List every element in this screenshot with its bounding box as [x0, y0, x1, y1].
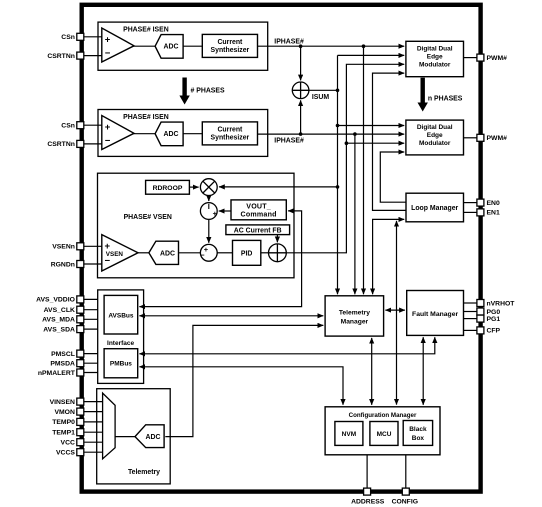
svg-text:Configuration Manager: Configuration Manager — [349, 412, 417, 419]
svg-text:Command: Command — [241, 211, 277, 219]
wire config bus up-arrow into loop input — [396, 221, 398, 405]
wire Loop Manager to modulator2 in4 (bus V6) — [380, 152, 406, 202]
wire PMBus to Fault Manager — [139, 337, 434, 354]
svg-text:RDROOP: RDROOP — [153, 185, 183, 192]
svg-text:AC Current FB: AC Current FB — [234, 228, 282, 235]
svg-text:n PHASES: n PHASES — [428, 95, 463, 102]
pin VINSEN — [77, 398, 84, 405]
pin PG1 — [477, 315, 484, 322]
wire ISUM bus to multiplier — [219, 186, 338, 188]
wire bus V4: IPHASE#1 down to Telemetry Manager — [363, 46, 365, 294]
svg-text:AVS_VDDIO: AVS_VDDIO — [36, 297, 75, 304]
svg-text:nPMALERT: nPMALERT — [38, 370, 76, 377]
pin AVS_MDA — [77, 316, 84, 323]
box NVM — [335, 422, 363, 446]
wire Loop Manager to modulator1 in4 (bus V5) — [373, 73, 407, 210]
thick arrow # PHASES — [182, 78, 186, 97]
box Telemetry Manager — [325, 296, 384, 336]
wire TEMP0 pin to telemetry mux — [84, 421, 103, 423]
svg-text:CSRTNn: CSRTNn — [47, 141, 75, 148]
pin PWM# 2 — [477, 134, 484, 141]
wire PID to adder — [261, 252, 269, 254]
wire summer1 to summer2 — [208, 219, 210, 242]
pin RGNDn — [77, 261, 84, 268]
thick arrow n PHASES — [421, 78, 425, 103]
pin CSRTNn 1 — [77, 52, 84, 59]
multiplier (droop) — [200, 179, 217, 196]
svg-text:TEMP1: TEMP1 — [52, 430, 75, 437]
svg-text:RGNDn: RGNDn — [51, 261, 75, 268]
svg-text:Modulator: Modulator — [419, 140, 451, 147]
box PMBus — [104, 349, 138, 378]
wire Telemetry Manager to Fault Manager (bidirectional) — [385, 309, 405, 311]
svg-text:CSn: CSn — [61, 34, 75, 41]
wire V1 to modulator2 in1 — [338, 125, 405, 127]
wire AVS_MDA pin to AVSBus — [84, 318, 104, 320]
pin nPMALERT — [77, 369, 84, 376]
wire AVSBus to VOUT_Command — [139, 211, 301, 307]
PART4 — [84, 299, 477, 488]
wire VSEN amp to ADC — [137, 252, 150, 254]
svg-text:CSn: CSn — [61, 123, 75, 130]
wire VINSEN pin to telemetry mux — [84, 401, 103, 403]
svg-text:PWM#: PWM# — [487, 135, 508, 142]
wire op-amp2 to ADC2 — [133, 133, 156, 135]
svg-text:TEMP0: TEMP0 — [52, 419, 75, 426]
svg-text:Box: Box — [412, 435, 425, 442]
pin PMSDA — [77, 360, 84, 367]
op-amp ISEN2 — [102, 116, 134, 150]
box Configuration Manager — [325, 407, 440, 455]
svg-text:AVS_SDA: AVS_SDA — [43, 326, 75, 333]
box MCU — [370, 422, 398, 446]
ADC VSEN — [149, 241, 179, 264]
wire CSn1 to op-amp — [84, 36, 103, 38]
wire AVS_CLK pin to AVSBus — [84, 309, 104, 311]
pin PMSCL — [77, 350, 84, 357]
svg-text:VCCS: VCCS — [56, 450, 75, 457]
wire Configuration Manager to CONFIG pin — [405, 455, 407, 488]
svg-text:VCC: VCC — [61, 440, 75, 447]
wire IPHASE#1 net to modulator1 in1 — [258, 45, 405, 47]
svg-text:Edge: Edge — [427, 54, 443, 61]
svg-text:AVS_CLK: AVS_CLK — [44, 307, 75, 314]
wire CSRTNn1 to op-amp — [84, 55, 103, 57]
pins: left side squares — [77, 33, 484, 495]
box VOUT_ Command — [231, 200, 286, 220]
wire ISUM output to bus V1 — [309, 89, 338, 91]
svg-text:Edge: Edge — [427, 132, 443, 139]
box AVSBus — [104, 295, 138, 334]
svg-text:Telemetry: Telemetry — [128, 469, 160, 476]
op-amp ISEN1 — [102, 28, 134, 62]
wire V1 to modulator1 in2 — [338, 54, 405, 56]
wire VOUT_Command to summer1 — [219, 210, 231, 212]
wire ADC2 to Current Synthesizer 2 — [183, 133, 202, 135]
PART3 — [258, 46, 477, 404]
svg-text:VSEN: VSEN — [106, 251, 124, 258]
svg-text:MCU: MCU — [377, 431, 392, 438]
op-amp VSEN — [102, 235, 138, 271]
wire compensator net: adder out, up bus V2, to modulator1 in3 — [286, 64, 404, 253]
svg-text:−: − — [105, 48, 111, 59]
wire Fault Manager to CFP pin — [464, 329, 477, 331]
pin CSn 2 — [77, 122, 84, 129]
pin CONFIG — [402, 488, 409, 495]
wire bus V1 vertical (ISUM net) — [337, 55, 339, 294]
svg-text:ISUM: ISUM — [312, 94, 329, 101]
svg-text:IPHASE#: IPHASE# — [274, 137, 304, 144]
svg-text:ADC: ADC — [160, 250, 175, 257]
ADC ISEN1 — [155, 35, 183, 59]
svg-text:PMBus: PMBus — [110, 361, 132, 368]
svg-text:Telemetry: Telemetry — [339, 310, 370, 317]
svg-text:nVRHOT: nVRHOT — [487, 300, 516, 307]
svg-text:+: + — [105, 34, 111, 45]
box Current Synthesizer 2 — [202, 122, 257, 145]
svg-text:ADC: ADC — [164, 44, 179, 51]
wire Fault Manager to Configuration Manager (bidirectional) — [422, 337, 424, 405]
svg-text:Black: Black — [409, 426, 427, 433]
svg-text:+: + — [213, 209, 218, 218]
svg-text:Current: Current — [217, 126, 243, 133]
svg-text:+: + — [105, 122, 111, 133]
wire bus V3: IPHASE#2 down to Telemetry Manager — [354, 134, 356, 294]
pin EN0 — [477, 199, 484, 206]
svg-text:EN0: EN0 — [487, 200, 500, 207]
block PHASE# ISEN 2 — [98, 110, 268, 157]
svg-text:−: − — [105, 136, 111, 147]
svg-text:Manager: Manager — [341, 319, 369, 326]
svg-text:−: − — [200, 251, 205, 260]
wire CSRTNn2 to op-amp — [84, 143, 103, 145]
svg-text:CFP: CFP — [487, 328, 501, 335]
box Interface — [98, 290, 144, 384]
svg-text:AVS_MDA: AVS_MDA — [42, 317, 75, 324]
svg-text:Loop Manager: Loop Manager — [411, 205, 458, 212]
svg-text:VSENn: VSENn — [52, 244, 75, 251]
pin nVRHOT — [477, 300, 484, 307]
wire AVS_VDDIO pin to AVSBus — [84, 298, 104, 300]
box Digital Dual Edge Modulator 1 — [406, 41, 464, 76]
svg-text:Interface: Interface — [107, 340, 134, 347]
wire VCC pin to telemetry mux — [84, 441, 103, 443]
ADC ISEN2 — [155, 122, 183, 146]
pin TEMP0 — [77, 418, 84, 425]
wire IPHASE#2 net to modulator2 in2 — [258, 133, 405, 135]
wire AC Current FB to adder — [276, 235, 278, 243]
block PHASE# VSEN — [98, 173, 295, 278]
pin VCC — [77, 439, 84, 446]
wire IPHASE#2 branch up to ISUM — [300, 100, 302, 134]
wire CSn2 to op-amp — [84, 124, 103, 126]
svg-text:Fault Manager: Fault Manager — [412, 311, 458, 318]
junction dots on IPHASE and ISUM buses — [299, 44, 366, 188]
wire telemetry mux to ADC — [115, 436, 136, 438]
wire VMON pin to telemetry mux — [84, 411, 103, 413]
adder node (AC current FB) — [269, 244, 287, 262]
summing node ISUM — [292, 82, 309, 99]
pin PG0 — [477, 308, 484, 315]
wire ADC1 to Current Synthesizer 1 — [183, 45, 202, 47]
svg-text:PMSDA: PMSDA — [50, 361, 75, 368]
pin AVS_SDA — [77, 326, 84, 333]
svg-text:ADDRESS: ADDRESS — [351, 499, 385, 506]
wire VCCS pin to telemetry mux — [84, 451, 103, 453]
svg-text:PWM#: PWM# — [487, 55, 508, 62]
box Digital Dual Edge Modulator 2 — [406, 120, 464, 155]
svg-text:Modulator: Modulator — [419, 62, 451, 69]
pin AVS_CLK — [77, 306, 84, 313]
wire PMSCL pin to PMBus — [84, 353, 104, 355]
box Black Box — [403, 421, 432, 446]
svg-text:Synthesizer: Synthesizer — [211, 47, 250, 54]
wire PMSDA pin to PMBus — [84, 362, 104, 364]
wire Loop Manager to EN1 pin — [464, 211, 477, 213]
wire Fault Manager to PG1 pin — [464, 318, 477, 320]
wire Loop Manager to EN0 pin — [464, 202, 477, 204]
svg-text:NVM: NVM — [342, 431, 356, 438]
pin PWM# 1 — [477, 54, 484, 61]
svg-text:PMSCL: PMSCL — [51, 351, 75, 358]
wire Configuration Manager to ADDRESS pin — [366, 455, 368, 488]
svg-text:VMON: VMON — [54, 409, 74, 416]
pin CFP — [477, 327, 484, 334]
box Fault Manager — [407, 291, 464, 336]
pin CSn 1 — [77, 33, 84, 40]
wire telemetry ADC to Telemetry Manager — [165, 325, 323, 436]
svg-text:# PHASES: # PHASES — [191, 87, 225, 94]
pin VMON — [77, 408, 84, 415]
wire PMBus to Configuration Manager — [139, 367, 343, 405]
svg-text:AVSBus: AVSBus — [108, 312, 134, 319]
wire RGNDn pin to VSEN amp — [84, 263, 103, 265]
svg-text:VOUT_: VOUT_ — [246, 202, 271, 210]
wire TEMP1 pin to telemetry mux — [84, 431, 103, 433]
wire modulator1 output to PWM# pin — [464, 57, 477, 59]
pin ADDRESS — [364, 488, 371, 495]
svg-text:PG1: PG1 — [487, 316, 501, 323]
ADC telemetry — [135, 425, 164, 448]
wire Loop Manager input from telemetry bus — [373, 219, 405, 294]
summer node (VOUT minus droop) — [200, 203, 217, 220]
box PID — [233, 240, 261, 265]
wire AVSBus to Telemetry Manager (bidirectional) — [139, 315, 323, 317]
wire nPMALERT pin to PMBus — [84, 372, 104, 374]
wire Fault Manager to nVRHOT pin — [464, 302, 477, 304]
svg-text:ADC: ADC — [146, 434, 161, 441]
svg-text:VINSEN: VINSEN — [50, 399, 75, 406]
box AC Current FB — [226, 225, 290, 235]
svg-text:PHASE# ISEN: PHASE# ISEN — [123, 114, 169, 121]
svg-text:CSRTNn: CSRTNn — [47, 53, 75, 60]
wire AVS_SDA pin to AVSBus — [84, 328, 104, 330]
wire IPHASE#1 branch down to ISUM — [300, 46, 302, 80]
box Loop Manager — [406, 193, 464, 222]
svg-text:CONFIG: CONFIG — [392, 499, 418, 506]
wire ADC to summer2 — [179, 252, 201, 254]
labels: right pin names — [487, 55, 516, 335]
svg-text:PHASE# VSEN: PHASE# VSEN — [124, 214, 172, 221]
wire Fault Manager to PG0 pin — [464, 311, 477, 313]
wire op-amp1 to ADC1 — [133, 45, 156, 47]
wire modulator2 output to PWM# pin — [464, 137, 477, 139]
wire RDROOP to multiplier — [189, 186, 198, 188]
wire VSENn pin to VSEN amp — [84, 245, 103, 247]
svg-text:PHASE# ISEN: PHASE# ISEN — [123, 27, 169, 34]
box Telemetry — [97, 389, 171, 484]
svg-text:IPHASE#: IPHASE# — [274, 39, 304, 46]
telemetry input mux — [103, 393, 116, 459]
pin AVS_VDDIO — [77, 296, 84, 303]
wire Telemetry Manager to Configuration Manager (bidirectional) — [371, 338, 373, 405]
pin EN1 — [477, 209, 484, 216]
pin VSENn — [77, 243, 84, 250]
svg-text:Synthesizer: Synthesizer — [211, 135, 250, 142]
svg-text:Digital Dual: Digital Dual — [417, 46, 453, 53]
pin VCCS — [77, 449, 84, 456]
wire multiplier to summer1 — [208, 196, 210, 202]
block PHASE# ISEN 1 — [98, 22, 268, 70]
wire V2 branch to modulator2 in3 — [346, 142, 404, 144]
svg-text:PG0: PG0 — [487, 309, 501, 316]
labels: left pin names — [36, 34, 76, 456]
svg-text:EN1: EN1 — [487, 210, 500, 217]
wire summer2 to PID — [217, 252, 232, 254]
svg-text:ADC: ADC — [164, 131, 179, 138]
svg-text:PID: PID — [241, 250, 253, 257]
pin CSRTNn 2 — [77, 140, 84, 147]
box Current Synthesizer 1 — [202, 34, 257, 57]
box RDROOP — [146, 180, 190, 194]
pin TEMP1 — [77, 429, 84, 436]
svg-text:Digital Dual: Digital Dual — [417, 124, 453, 131]
svg-text:Current: Current — [217, 39, 243, 46]
chip outer border — [82, 5, 481, 492]
summer node 2 (error) — [200, 244, 217, 261]
